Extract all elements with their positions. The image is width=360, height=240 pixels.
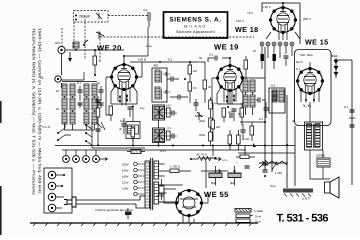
WE20 cathode resistor [109, 106, 113, 121]
electrolytic cap 2 [228, 166, 241, 186]
label WE 18 [235, 25, 259, 34]
svg-text:+2,5: +2,5 [247, 11, 253, 15]
svg-text:0,1: 0,1 [238, 112, 242, 116]
rectifier filament resistor [159, 179, 164, 200]
svg-text:WE 15: WE 15 [305, 38, 329, 47]
band coil box right [269, 84, 285, 114]
det load resistor chain x210 [199, 97, 218, 145]
svg-text:0,1M: 0,1M [243, 138, 250, 141]
main AF rail y145 [55, 145, 295, 147]
svg-text:0,1: 0,1 [344, 105, 348, 109]
RF section lower coils [62, 112, 97, 124]
svg-text:R1: R1 [56, 107, 60, 111]
avc arrow component [194, 99, 204, 120]
svg-text:220V: 220V [122, 163, 129, 167]
IF2 secondary trimmer [165, 127, 178, 140]
svg-text:290 V: 290 V [303, 17, 311, 21]
svg-text:1940-1941 — Gamme on. (13-38),: 1940-1941 — Gamme on. (13-38), e. (180-5… [38, 28, 43, 195]
audio divider resistors [228, 130, 256, 150]
plate supply wire y62 [130, 58, 205, 64]
antenna bus wire [65, 49, 124, 51]
svg-text:0,1: 0,1 [296, 67, 300, 71]
WE18 lower parts [261, 54, 289, 69]
tube WE15 [296, 67, 324, 95]
WE15 leads [301, 62, 319, 108]
mains fuse [127, 150, 145, 154]
svg-text:SIEMENS S. A.: SIEMENS S. A. [169, 17, 221, 24]
field coil 1000ohm [316, 150, 330, 179]
svg-text:2MΩ: 2MΩ [199, 120, 205, 123]
RF coil bank L3/L4 [84, 84, 97, 110]
SCC switch [42, 122, 71, 141]
right vertical bus [334, 60, 355, 185]
svg-text:0,5: 0,5 [193, 86, 197, 90]
svg-text:+40 V: +40 V [263, 5, 271, 9]
svg-text:1M: 1M [193, 69, 198, 73]
WE20 screen cap [128, 107, 133, 117]
antenna series coil [73, 40, 88, 48]
margin note (vertical credits text) [32, 28, 43, 195]
junction dot columns [119, 94, 235, 103]
svg-text:25: 25 [97, 81, 101, 85]
earth terminal [40, 75, 61, 82]
svg-text:25: 25 [253, 49, 257, 53]
svg-text:1 watt: 1 watt [254, 209, 263, 213]
AVC resistor chain [188, 62, 198, 103]
power transformer [145, 158, 167, 210]
svg-text:2MΩ: 2MΩ [199, 134, 205, 137]
antenna terminal [55, 41, 65, 54]
tube WE18 [269, 6, 297, 34]
label WE 15 [305, 38, 329, 47]
svg-text:T. 531 - 536: T. 531 - 536 [277, 213, 329, 225]
resistor column right of IF [203, 62, 221, 141]
svg-text:110V: 110V [122, 187, 128, 191]
svg-text:10μ: 10μ [140, 107, 145, 110]
svg-text:5μF: 5μF [120, 119, 125, 123]
WE18 socket dots [261, 43, 293, 45]
antenna shunt resistor [62, 50, 102, 80]
oscillator coil assembly [240, 56, 255, 115]
svg-text:Gel.5: Gel.5 [296, 60, 303, 64]
svg-text:WE 20: WE 20 [97, 44, 122, 53]
left column feed x98 [89, 96, 101, 146]
dashed link line mid [100, 36, 254, 38]
wave switch contacts [85, 122, 105, 148]
padder caps osc [256, 98, 269, 119]
legend quarter watt [236, 219, 262, 224]
bias arrows [331, 54, 339, 78]
output transformer [305, 102, 323, 150]
WE55 surround wiring [156, 189, 208, 223]
WE19 leads down [217, 87, 243, 108]
svg-text:6,3: 6,3 [271, 84, 275, 88]
svg-text:75: 75 [98, 59, 102, 63]
svg-text:70+70 Ω: 70+70 Ω [196, 153, 207, 157]
value labels RF [56, 81, 101, 111]
rectifier output wires [159, 157, 236, 223]
AF parallel RC block [119, 106, 145, 146]
tube WE55 [175, 189, 203, 217]
svg-text:0,1: 0,1 [214, 102, 218, 105]
label WE 55 [204, 190, 229, 199]
label WE 19 [214, 43, 239, 52]
IF1 trimmers [163, 72, 170, 94]
svg-text:4,5 v: 4,5 v [222, 159, 228, 162]
290V label [303, 17, 311, 21]
WE18 socket row [236, 19, 300, 58]
tube WE19 [216, 64, 244, 92]
IF2 primary trimmer [165, 105, 178, 118]
ripple caps x265 [238, 122, 295, 177]
svg-text:Sezione Apparecchi: Sezione Apparecchi [176, 30, 215, 34]
svg-text:125V: 125V [122, 181, 129, 185]
svg-text:μF: μF [119, 128, 123, 131]
svg-text:Sch. tubo: Sch. tubo [300, 53, 313, 57]
tube WE20 leads [106, 55, 142, 106]
svg-text:50: 50 [199, 56, 203, 60]
misc value labels [146, 44, 300, 164]
svg-text:Bias: Bias [331, 54, 338, 58]
svg-text:50: 50 [56, 89, 60, 93]
edge scan marks [0, 101, 2, 235]
svg-text:50: 50 [208, 85, 212, 89]
svg-text:G: G [40, 75, 43, 80]
volume potentiometer [259, 161, 288, 175]
svg-text:WE 19: WE 19 [214, 43, 239, 52]
svg-text:3,5: 3,5 [167, 127, 171, 130]
svg-text:0,5μ: 0,5μ [270, 184, 276, 188]
tube WE20 [110, 63, 138, 91]
rectifier feed resistors [159, 153, 228, 173]
mains line capacitor [125, 208, 132, 219]
coupling caps mid [167, 77, 188, 100]
tone control [236, 155, 268, 168]
tuning gang dashed box 282pF [74, 11, 109, 23]
svg-text:160V: 160V [122, 169, 129, 173]
IF transformer 2 primary [153, 105, 165, 120]
svg-text:Ant: Ant [55, 41, 60, 45]
400 cap and dropper [228, 103, 244, 125]
svg-text:Cordone gommato tipo 80 cm: Cordone gommato tipo 80 cm [95, 208, 134, 212]
svg-text:40: 40 [292, 119, 296, 123]
IF transformer 1 [152, 64, 167, 103]
RF section caps [78, 86, 104, 108]
label WE 20 [97, 44, 122, 53]
svg-text:150 Ω: 150 Ω [138, 58, 147, 62]
legend 1 watt [235, 209, 263, 214]
trimmer at end of link [143, 8, 150, 27]
WE15 shield box [295, 50, 332, 126]
svg-text:5 700 Ω: 5 700 Ω [170, 165, 180, 169]
svg-text:WE 18: WE 18 [235, 25, 259, 34]
svg-text:100: 100 [166, 105, 171, 108]
svg-text:0,1: 0,1 [259, 117, 263, 121]
RF coil bank L1/L2 [62, 84, 75, 110]
svg-text:0,1: 0,1 [168, 58, 173, 62]
WE18 top wires [247, 2, 300, 44]
bottom chassis line [30, 223, 258, 226]
electrolytic capacitors 8uF [209, 166, 222, 186]
WE19 bias parts [222, 108, 242, 122]
legend half watt [236, 214, 262, 219]
svg-text:Y₁ Y₂: Y₁ Y₂ [303, 104, 312, 108]
svg-text:TELEFUNKEN RADIO (S. A. SIEMEN: TELEFUNKEN RADIO (S. A. SIEMENS) — Mod. … [32, 28, 37, 195]
svg-text:½ w: ½ w [255, 215, 262, 219]
svg-text:469: 469 [153, 64, 158, 68]
svg-text:Osc: Osc [240, 75, 246, 79]
dial lamp terminal row [62, 150, 246, 162]
speaker [310, 150, 339, 198]
svg-text:1000Ω: 1000Ω [316, 154, 326, 158]
title box SIEMENS S.A. [164, 12, 228, 38]
label T.531-536 [277, 213, 329, 225]
svg-text:0,1μ: 0,1μ [146, 44, 152, 48]
chassis bar AT [270, 184, 313, 201]
WE19 grid feed [208, 53, 251, 79]
svg-text:2M: 2M [216, 125, 221, 129]
misc connecting wires [92, 27, 265, 163]
antenna select arrow [62, 28, 72, 62]
svg-text:0,1: 0,1 [209, 53, 214, 57]
dashed link line top [108, 15, 148, 17]
IF transformer 2 secondary [153, 120, 165, 146]
svg-text:1 MΩ: 1 MΩ [275, 171, 282, 175]
svg-text:S.C.C.: S.C.C. [42, 125, 51, 129]
mains voltage selector [122, 162, 145, 196]
svg-text:± A.T.: ± A.T. [302, 197, 311, 201]
transistor-era misc caps left of pot [241, 122, 254, 141]
svg-text:0,1: 0,1 [77, 81, 81, 85]
AF coupling cluster [120, 118, 135, 142]
long vertical buses mid [264, 47, 295, 188]
RF wires verticals [62, 82, 97, 131]
svg-text:4 p: 4 p [143, 8, 148, 12]
mains plug [64, 196, 145, 212]
svg-text:MILANO: MILANO [184, 25, 207, 29]
svg-text:6,3 v: 6,3 v [160, 149, 167, 153]
wire antenna to coils [61, 54, 63, 88]
svg-text:140V: 140V [122, 175, 129, 179]
phono terminal strip [44, 168, 72, 213]
dashed vertical links [74, 16, 104, 61]
svg-text:140 V: 140 V [236, 19, 244, 23]
